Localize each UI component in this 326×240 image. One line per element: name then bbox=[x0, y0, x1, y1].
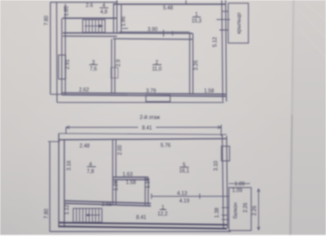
tick bottom of 1.85 bbox=[63, 17, 69, 19]
bottom wall plan1 (double) bbox=[62, 93, 226, 94]
svg-text:2.00: 2.00 bbox=[118, 145, 124, 155]
top dim line 2.6 bbox=[50, 1, 117, 3]
svg-text:2.26: 2.26 bbox=[252, 205, 258, 215]
right wall plan1 (double) bbox=[222, 0, 223, 102]
left wall plan1 (double) bbox=[61, 18, 63, 95]
svg-text:5.12: 5.12 bbox=[212, 37, 218, 47]
svg-text:2.91: 2.91 bbox=[65, 59, 71, 69]
tick top of 7.80 plan2 bbox=[48, 141, 60, 143]
top dim line 8.41 plan2 bbox=[66, 126, 138, 128]
svg-text:4.13: 4.13 bbox=[177, 191, 187, 197]
front wall of room 1 bbox=[113, 3, 226, 5]
stair hall top wall bbox=[63, 17, 117, 19]
svg-text:3.26: 3.26 bbox=[194, 60, 200, 70]
svg-text:1.38: 1.38 bbox=[214, 208, 220, 218]
porch step ticks bbox=[217, 11, 231, 30]
balcony outer dim 2.26 line bbox=[258, 189, 260, 231]
window right wall plan2 bbox=[221, 146, 229, 161]
dim line 7.80 outer (plan1) bbox=[49, 2, 51, 94]
fold line upper bbox=[292, 0, 294, 115]
svg-text:16,1: 16,1 bbox=[179, 168, 189, 174]
bottom left corner shade bbox=[0, 150, 120, 235]
stairs plan2 box bbox=[73, 208, 102, 222]
svg-text:3: 3 bbox=[92, 60, 95, 66]
svg-text:1.86: 1.86 bbox=[121, 16, 127, 26]
svg-text:7,6: 7,6 bbox=[90, 66, 97, 72]
svg-text:1.63: 1.63 bbox=[123, 172, 133, 178]
bottom dim line plan2 bbox=[50, 231, 231, 233]
svg-text:12,2: 12,2 bbox=[158, 211, 168, 217]
bottom dim line plan1 bbox=[57, 101, 224, 103]
svg-text:2.6: 2.6 bbox=[86, 3, 93, 9]
svg-text:8.41: 8.41 bbox=[142, 125, 152, 131]
stair hall top wall plan2 (double, sloped) bbox=[64, 201, 151, 204]
stairs plan1 box bbox=[83, 20, 105, 33]
balcony dim 1.09 line bbox=[229, 183, 250, 185]
svg-text:1.10: 1.10 bbox=[146, 178, 152, 188]
extension tick at x117 bbox=[116, 0, 118, 5]
tick on it bbox=[199, 194, 201, 200]
dim line 7.80 plan2 bbox=[49, 142, 51, 232]
dim line secondary left (plan1) bbox=[56, 2, 58, 102]
left wall plan2 (double) bbox=[58, 133, 60, 227]
svg-text:3.90: 3.90 bbox=[147, 27, 157, 33]
ext tick right bbox=[220, 125, 222, 136]
svg-text:11,0: 11,0 bbox=[152, 66, 162, 72]
small room right wall (double) bbox=[144, 177, 146, 205]
wall room3/room2 (double) bbox=[111, 39, 113, 94]
svg-text:1.12: 1.12 bbox=[64, 204, 70, 214]
window left wall plan1 bbox=[59, 55, 66, 79]
wall room4/room5 (double) bbox=[112, 140, 114, 178]
top wall plan2 outer bbox=[59, 133, 227, 134]
svg-text:4,8: 4,8 bbox=[100, 9, 107, 15]
svg-text:8.41: 8.41 bbox=[136, 215, 146, 221]
svg-text:15,3: 15,3 bbox=[191, 19, 201, 25]
svg-text:1.58: 1.58 bbox=[126, 180, 136, 186]
svg-text:4: 4 bbox=[102, 3, 105, 9]
svg-text:2.62: 2.62 bbox=[79, 87, 89, 93]
fold line lower bbox=[290, 115, 292, 235]
tick bottom dim bbox=[50, 93, 62, 95]
svg-text:5.76: 5.76 bbox=[161, 143, 171, 149]
stairs plan2 arrow bbox=[87, 214, 100, 216]
right wall plan2 (double) bbox=[222, 135, 223, 228]
porch box bbox=[228, 3, 248, 43]
svg-text:2.48: 2.48 bbox=[80, 144, 90, 150]
small room top wall (double) bbox=[113, 176, 149, 178]
dim line 1.86 vertical bbox=[120, 5, 122, 33]
balcony box bbox=[229, 188, 251, 231]
crumple streaks top right bbox=[297, 2, 326, 58]
svg-text:3.16: 3.16 bbox=[67, 160, 73, 170]
svg-text:1.09: 1.09 bbox=[232, 188, 242, 194]
svg-text:7.80: 7.80 bbox=[44, 209, 50, 219]
tick top x186 bbox=[185, 0, 187, 5]
dim line 1.85 vertical bbox=[64, 4, 66, 18]
ext tick left bbox=[65, 127, 67, 134]
stairs plan1 arrow bbox=[85, 25, 103, 27]
svg-text:3.79: 3.79 bbox=[146, 89, 156, 95]
svg-text:балкон: балкон bbox=[233, 202, 239, 218]
svg-text:2-й этаж: 2-й этаж bbox=[140, 114, 161, 121]
svg-text:2.65: 2.65 bbox=[102, 202, 112, 208]
svg-text:7.80: 7.80 bbox=[44, 15, 50, 25]
dim line 3.90 bbox=[119, 31, 190, 33]
bottom wall plan2 (double dark) bbox=[59, 223, 227, 225]
svg-text:1.09: 1.09 bbox=[235, 182, 245, 188]
svg-text:1.58: 1.58 bbox=[204, 88, 214, 94]
svg-text:1.85: 1.85 bbox=[64, 6, 70, 16]
svg-text:2: 2 bbox=[155, 60, 158, 66]
stairs plan2 steps bbox=[76, 208, 98, 222]
open boundary dim line 4.13/4.19 bbox=[152, 195, 229, 197]
svg-text:2.9: 2.9 bbox=[116, 59, 122, 66]
window bottom wall room2 bbox=[146, 95, 170, 101]
svg-text:7,8: 7,8 bbox=[87, 169, 94, 175]
door tick room1 bbox=[123, 27, 129, 29]
right page fold shading bbox=[291, 0, 326, 235]
svg-text:крыльцо: крыльцо bbox=[237, 13, 243, 34]
tick a on 3.90 bbox=[163, 30, 165, 37]
svg-text:1.28: 1.28 bbox=[114, 181, 120, 191]
small room left wall bbox=[112, 177, 114, 205]
tick b on 3.90 bbox=[172, 31, 174, 36]
top wall plan2 inner bbox=[59, 139, 227, 140]
wall between stair hall and room1 (double) bbox=[113, 4, 115, 33]
middle wall band (double) bbox=[63, 32, 193, 34]
svg-text:5.48: 5.48 bbox=[163, 5, 173, 11]
tick left end bbox=[151, 194, 153, 200]
svg-text:3.10: 3.10 bbox=[214, 161, 220, 171]
stairs plan1 steps bbox=[86, 20, 102, 33]
balcony door ticks bbox=[222, 208, 230, 220]
wall room2/corridor (double) bbox=[189, 33, 191, 94]
door mark room2 left bbox=[111, 68, 118, 79]
svg-text:2.26: 2.26 bbox=[243, 202, 249, 212]
svg-text:4.19: 4.19 bbox=[179, 198, 189, 204]
